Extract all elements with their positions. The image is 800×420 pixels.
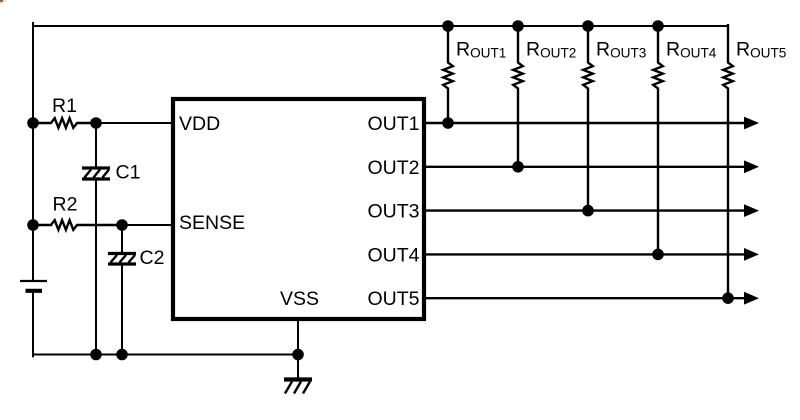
wire: bottom ground rail [32, 354, 298, 356]
junction dot: left rail / R2 [27, 219, 39, 231]
wire: OUT3 output line [424, 209, 746, 211]
ground symbol [284, 380, 312, 394]
svg-text:OUT3: OUT3 [367, 201, 419, 223]
wire: OUT2 output line [424, 166, 746, 168]
junction dot: ROUT3 / OUT3 line [582, 205, 594, 217]
arrowhead OUT1 [744, 117, 759, 130]
capacitor C2 [108, 254, 136, 265]
svg-text:OUT2: OUT2 [367, 157, 419, 179]
IC U1 body [173, 99, 424, 319]
wire: C2 upper lead [121, 225, 123, 254]
junction dot: C1 / ground rail [90, 349, 102, 361]
svg-text:R2: R2 [53, 194, 78, 216]
junction dot: VDD node [90, 117, 102, 129]
wire: VSS pin to ground rail [297, 319, 299, 378]
resistor ROUT5 [723, 24, 733, 298]
svg-text:OUT1: OUT1 [367, 113, 419, 135]
wire: C1 upper lead [95, 123, 97, 168]
svg-text:OUT4: OUT4 [367, 244, 419, 266]
svg-text:VSS: VSS [280, 288, 319, 310]
arrowhead OUT3 [744, 204, 759, 217]
junction dot: ROUT1 / OUT1 line [442, 117, 454, 129]
resistor ROUT2 [513, 24, 523, 167]
capacitor C1 [82, 168, 110, 179]
junction dot: top rail / ROUT1 [442, 20, 454, 32]
junction dot: top rail / ROUT3 [582, 20, 594, 32]
wire: left supply rail upper segment [32, 22, 34, 281]
battery B1 [20, 281, 47, 291]
junction dot: SENSE node [116, 219, 128, 231]
resistor ROUT3 [583, 24, 593, 211]
junction dot: top rail / ROUT2 [512, 20, 524, 32]
resistor R1 [33, 118, 96, 128]
svg-text:OUT5: OUT5 [367, 288, 419, 310]
arrowhead OUT4 [744, 248, 759, 261]
wire: OUT1 output line [424, 122, 746, 124]
wire: OUT4 output line [424, 253, 746, 255]
resistor R2 [33, 220, 122, 230]
junction dot: VSS / ground rail [292, 349, 304, 361]
wire: C2 lower lead [121, 264, 123, 355]
resistor ROUT4 [653, 24, 663, 254]
corner artifact [0, 0, 6, 4]
junction dot: ROUT2 / OUT2 line [512, 161, 524, 173]
wire: OUT5 output line [424, 297, 746, 299]
arrowhead OUT2 [744, 160, 759, 173]
junction dot: top rail / ROUT4 [652, 20, 664, 32]
junction dot: ROUT4 / OUT4 line [652, 249, 664, 261]
svg-text:VDD: VDD [179, 113, 220, 135]
wire: C1 lower lead [95, 179, 97, 355]
svg-text:C2: C2 [140, 247, 165, 269]
arrowhead OUT5 [744, 292, 759, 305]
wire: VDD node to IC pin [96, 122, 173, 124]
junction dot: left rail / R1 [27, 117, 39, 129]
junction dot: C2 / ground rail [116, 349, 128, 361]
junction dot: ROUT5 / OUT5 line [722, 292, 734, 304]
resistor ROUT1 [443, 24, 453, 123]
svg-text:SENSE: SENSE [179, 212, 245, 234]
wire: top supply rail [33, 25, 728, 27]
svg-text:R1: R1 [52, 95, 77, 117]
wire: SENSE node to IC pin [122, 224, 173, 226]
svg-text:C1: C1 [116, 162, 141, 184]
wire: left supply rail lower segment [32, 291, 34, 358]
